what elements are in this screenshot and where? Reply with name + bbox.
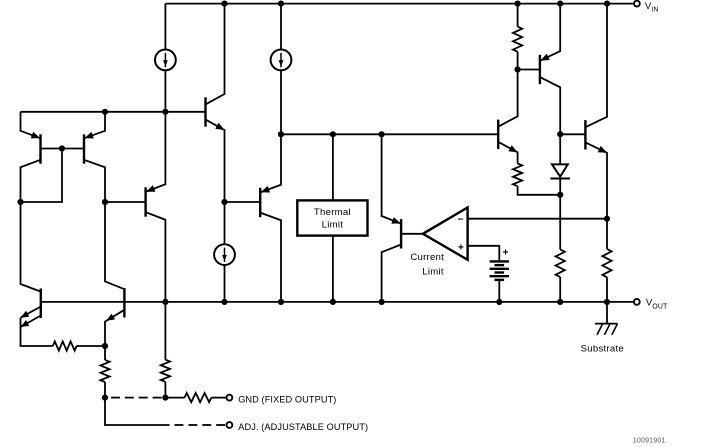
label V_IN: [645, 1, 659, 14]
svg-text:+: +: [458, 242, 464, 253]
svg-text:Substrate: Substrate: [581, 344, 624, 355]
svg-text:GND (FIXED OUTPUT): GND (FIXED OUTPUT): [238, 395, 336, 405]
node base tie dot: [59, 145, 65, 151]
label Current Limit: [410, 252, 444, 277]
svg-text:Limit: Limit: [422, 267, 444, 278]
node resistor row dot B: [102, 343, 108, 349]
wire mid rail right (drive line): [281, 133, 498, 135]
wire top V_IN rail: [165, 3, 633, 5]
wire V_OUT bottom rail: [41, 301, 633, 303]
node minus input dot K: [604, 216, 610, 222]
node gnd row dot C: [162, 395, 168, 401]
transistor Q6: [498, 70, 517, 164]
wire base-to-collector tie: [21, 149, 63, 203]
terminal V_OUT: [634, 299, 640, 305]
resistor R4: [602, 219, 611, 302]
wire Q4 base: [105, 201, 146, 203]
wire dashed adj link: [175, 424, 226, 426]
transistor Q3: [206, 4, 225, 202]
resistor R2: [513, 164, 560, 195]
resistor R3: [556, 195, 565, 302]
wire Q5 base: [225, 201, 261, 203]
transistor Q1: [21, 112, 41, 202]
node bottom rail dot E: [278, 299, 284, 305]
transistor Q2: [84, 112, 105, 202]
transistor Q7: [540, 4, 560, 135]
transistor Q11: [21, 202, 53, 346]
transistor Q12: [105, 202, 124, 346]
label ADJ: [238, 422, 368, 432]
node Q2 collector dot: [102, 199, 108, 205]
svg-text:−: −: [458, 214, 464, 225]
wire thermal limit bottom: [332, 236, 334, 302]
wire Q1-Q2 base link: [41, 148, 85, 150]
op-amp U1 current limit: [423, 208, 468, 260]
terminal GND: [227, 395, 233, 401]
wire U1 minus input: [468, 218, 607, 220]
battery reference V1: [490, 248, 509, 302]
label V_OUT: [646, 298, 668, 311]
resistor R7: [53, 341, 105, 350]
wire Q7 base: [518, 69, 540, 71]
wire U1 output to Q10 base: [401, 233, 423, 235]
thermal limit box U2: [297, 200, 367, 235]
node gnd row dot B: [102, 395, 108, 401]
svg-text:IN: IN: [651, 7, 658, 14]
node bottom rail dot K: [604, 299, 610, 305]
transistor Q5: [260, 134, 281, 302]
node diode cathode dot: [557, 192, 563, 198]
node bottom rail dot C: [162, 299, 168, 305]
current source I2: [271, 4, 292, 135]
node Q3 emitter junction dot: [221, 199, 227, 205]
node top rail dot J: [557, 1, 563, 7]
wire U1 plus input: [468, 246, 500, 262]
node mid rail 2 dot F: [330, 131, 336, 137]
node bottom rail dot battery: [496, 299, 502, 305]
node mid rail dot B: [102, 109, 108, 115]
wire adj solid: [105, 398, 170, 425]
node Q1 collector dot: [17, 199, 23, 205]
transistor Q8: [560, 4, 607, 219]
node mid rail dot C: [162, 109, 168, 115]
node Q7 collector dot: [557, 131, 563, 137]
node bottom rail dot G: [379, 299, 385, 305]
resistor R6: [100, 346, 109, 398]
current source I1: [155, 4, 176, 112]
svg-text:Limit: Limit: [322, 219, 344, 230]
node bottom rail dot F: [330, 299, 336, 305]
wire thermal limit top: [332, 134, 334, 200]
diode D1: [550, 134, 570, 195]
svg-text:OUT: OUT: [652, 304, 668, 311]
node R1 bottom dot: [515, 66, 521, 72]
node top rail dot I: [515, 1, 521, 7]
terminal ADJ: [227, 422, 233, 428]
label GND: [238, 395, 336, 405]
transistor Q4: [146, 112, 166, 302]
resistor R8: [165, 393, 226, 402]
current source I3: [214, 202, 235, 302]
node top rail dot E: [278, 1, 284, 7]
node top rail dot K: [604, 1, 610, 7]
svg-text:Current: Current: [410, 252, 444, 263]
wire mid rail left (bias line): [21, 111, 206, 113]
svg-text:Thermal: Thermal: [314, 207, 351, 218]
node mid rail 2 dot E: [278, 131, 284, 137]
node mid rail 2 dot G: [379, 131, 385, 137]
resistor R5: [161, 302, 170, 398]
svg-text:+: +: [503, 248, 509, 259]
wire dashed gnd link: [111, 397, 162, 399]
terminal V_IN: [634, 1, 640, 7]
label Substrate: [581, 344, 624, 355]
node bottom rail dot D: [221, 299, 227, 305]
node top rail dot D: [221, 1, 227, 7]
resistor R1: [513, 4, 522, 70]
label document number: [633, 438, 666, 445]
transistor Q10: [382, 134, 402, 302]
node bottom rail dot J: [557, 299, 563, 305]
svg-text:ADJ. (ADJUSTABLE OUTPUT): ADJ. (ADJUSTABLE OUTPUT): [238, 422, 368, 432]
ground substrate: [595, 302, 618, 335]
svg-text:10091901: 10091901: [633, 438, 666, 445]
